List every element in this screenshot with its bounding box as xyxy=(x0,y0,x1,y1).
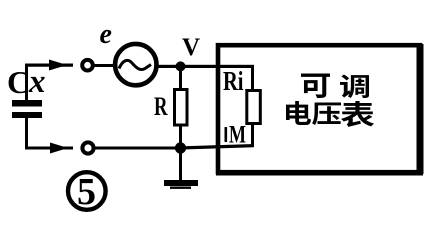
wire: bottom node into box (slightly higher) xyxy=(183,144,254,150)
figure number circle 5 xyxy=(68,172,106,210)
wire: top terminal to AC source xyxy=(94,64,114,67)
wire: left vertical from capacitor bottom plate down xyxy=(25,118,28,150)
wire: resistor R down to bottom node xyxy=(179,125,182,148)
wire: bottom-left horizontal to arrow xyxy=(25,147,73,150)
AC source sine wave xyxy=(119,60,151,69)
AC source circle xyxy=(115,44,156,85)
node V junction dot xyxy=(176,61,186,71)
svg-text:5: 5 xyxy=(77,171,96,213)
terminal: bottom open circle xyxy=(82,142,93,153)
label text "可" xyxy=(301,73,330,98)
label text "调" xyxy=(340,75,369,98)
svg-text:R: R xyxy=(154,92,168,121)
capacitor Cx top plate xyxy=(12,100,42,107)
terminal: top open circle xyxy=(82,60,93,71)
wire: bottom horizontal from terminal through node into box xyxy=(94,147,186,150)
svg-text:M: M xyxy=(229,122,246,149)
svg-text:Ri: Ri xyxy=(223,66,244,96)
wire: AC source to node V and into box xyxy=(156,65,254,68)
wire: ground stem xyxy=(179,148,182,181)
meter arrow tick before M xyxy=(225,127,228,142)
svg-text:e: e xyxy=(100,19,112,50)
label text "表" xyxy=(341,101,374,127)
svg-text:C: C xyxy=(7,64,30,100)
resistor Ri body xyxy=(247,91,260,124)
resistor R body xyxy=(175,90,188,126)
ground bar thick xyxy=(164,180,198,186)
wire: inside box down from top wire to Ri xyxy=(251,66,254,92)
arrowhead on bottom-left wire xyxy=(50,143,68,154)
voltmeter box right edge extra thickness xyxy=(417,44,424,174)
bottom node junction dot xyxy=(175,142,186,153)
ground bar lower smudge xyxy=(170,187,191,189)
wire: Ri bottom down to bottom wire xyxy=(251,123,254,146)
label text "电" xyxy=(286,101,311,125)
arrowhead on top-left wire xyxy=(49,60,67,71)
capacitor Cx bottom plate xyxy=(12,112,42,118)
wire: top-left horizontal from capacitor corner to arrow xyxy=(25,64,73,67)
wire: node V down to resistor R xyxy=(179,66,182,90)
wire: left vertical down to capacitor Cx top plate xyxy=(25,64,28,101)
svg-text:x: x xyxy=(28,64,46,100)
svg-text:V: V xyxy=(182,34,200,61)
voltmeter box outline xyxy=(218,45,420,172)
voltmeter box bottom edge extra thickness xyxy=(216,170,423,176)
label text "压" xyxy=(312,103,341,125)
